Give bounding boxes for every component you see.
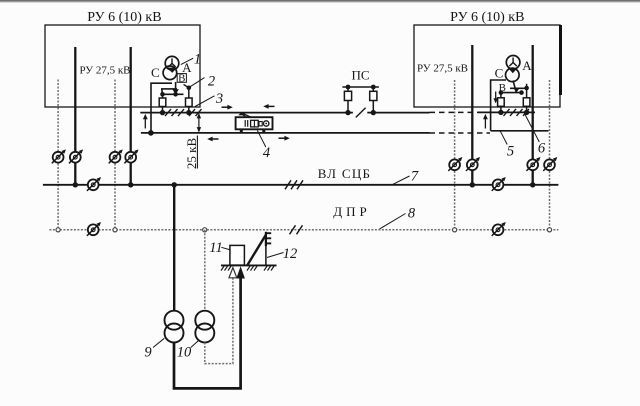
ground hatching on 25kV bus right xyxy=(504,109,530,116)
section insulator slash at PS xyxy=(356,108,366,118)
svg-text:А: А xyxy=(522,58,532,73)
svg-text:РУ 6 (10) кВ: РУ 6 (10) кВ xyxy=(450,10,524,25)
wire bar2 under T2 xyxy=(501,92,522,94)
current arrow left below rail xyxy=(207,137,218,142)
node on bar2 mid xyxy=(173,92,178,97)
transformer T10 xyxy=(195,311,214,343)
wire bar1 under T2 xyxy=(510,87,527,89)
fuse F3 right-left branch xyxy=(498,93,505,116)
pointer 8 xyxy=(380,214,406,230)
disconnector on VL SCB right xyxy=(492,177,506,191)
node bar2 right xyxy=(519,90,524,95)
svg-text:5: 5 xyxy=(507,144,514,160)
25 kV bus (contact wire) xyxy=(140,112,353,114)
svg-text:2: 2 xyxy=(208,74,215,90)
svg-text:3: 3 xyxy=(215,91,223,107)
node: left feeder 2 to VL SCB xyxy=(128,182,133,187)
DPR line xyxy=(49,229,558,231)
node top of right-right branch xyxy=(524,86,529,91)
grey return loop from T10 xyxy=(205,278,233,364)
disconnector on DPR right xyxy=(492,222,506,236)
phase label B left in box xyxy=(177,73,186,85)
pantograph of locomotive xyxy=(238,112,251,118)
svg-text:8: 8 xyxy=(408,206,416,222)
ground hatching on 25kV bus left xyxy=(165,109,202,116)
fuse F4 right-right branch xyxy=(523,84,530,115)
wire stem from T2 xyxy=(513,81,516,93)
svg-text:В: В xyxy=(178,73,185,85)
fuse F1 left branch xyxy=(159,94,166,115)
pointer 12 xyxy=(267,253,284,258)
РУ 6(10) кВ box left xyxy=(45,25,200,107)
pointer 5 xyxy=(500,131,507,144)
svg-text:10: 10 xyxy=(177,345,192,361)
svg-text:РУ 27,5 кВ: РУ 27,5 кВ xyxy=(79,65,130,77)
page top scan edge xyxy=(0,0,640,2)
down arrow in right assembly xyxy=(493,92,498,104)
pointer 2 xyxy=(190,78,205,87)
pole lower section xyxy=(265,246,267,265)
VL SCB line xyxy=(43,184,559,186)
current arrow right below rail xyxy=(279,136,290,141)
wire: T2 left terminal loop to rail-bottom xyxy=(491,80,506,131)
disconnector QS2 on left solid feeder 1 xyxy=(69,149,83,163)
feeder wire left solid 2 xyxy=(130,47,132,185)
feeder wire right solid 2 xyxy=(532,45,534,185)
node: right feeder 2 to VL SCB xyxy=(530,182,535,187)
label 25 кВ rotated xyxy=(184,138,199,170)
current arrow up at right substation xyxy=(483,114,488,129)
feeder wire right solid 1 xyxy=(471,45,473,185)
underline of 25 kV label xyxy=(196,136,198,169)
svg-text:7: 7 xyxy=(411,169,419,185)
fuse F2 right branch xyxy=(186,88,193,116)
wire bottom return right assembly xyxy=(491,130,549,132)
wire bar1 under T1 xyxy=(161,88,177,90)
svg-text:25 кВ: 25 кВ xyxy=(184,138,199,170)
node: rail start xyxy=(148,130,154,136)
pointer 7 xyxy=(393,176,410,184)
break slashes on DPR xyxy=(290,225,303,234)
rail line xyxy=(141,132,430,134)
node: right feeder 1 to VL SCB xyxy=(470,182,475,187)
hollow arrow to ground bar xyxy=(229,268,237,278)
pointer 10 xyxy=(191,340,199,347)
pointer 4 xyxy=(257,130,266,147)
wire DPR down to T10 xyxy=(204,230,206,311)
thick return loop from T9 xyxy=(174,278,241,388)
svg-text:ДПР: ДПР xyxy=(333,204,371,219)
disconnector on VL SCB left xyxy=(87,177,101,191)
feeder wire left solid 1 xyxy=(74,47,76,185)
node: left feeder 1 to VL SCB xyxy=(73,182,78,187)
wire VL SCB down to T9 xyxy=(173,185,175,311)
disconnector QS1 on left dashed feeder 1 xyxy=(52,149,66,163)
svg-text:9: 9 xyxy=(144,345,152,361)
pointer 11 xyxy=(221,247,229,249)
svg-text:РУ 6 (10) кВ: РУ 6 (10) кВ xyxy=(87,10,161,25)
node: T9 tap on VL SCB xyxy=(172,182,177,187)
disconnector QS6 on right solid feeder 1 xyxy=(466,157,480,171)
solid arrow to ground bar xyxy=(236,266,245,278)
wire right branch up-left xyxy=(184,84,189,87)
transformer T9 xyxy=(165,311,184,343)
svg-text:ВЛ СЦБ: ВЛ СЦБ xyxy=(318,166,372,181)
svg-text:11: 11 xyxy=(209,240,222,256)
locomotive 4 xyxy=(236,117,273,129)
svg-text:1: 1 xyxy=(194,52,201,68)
transformer T2 lower winding (delta) xyxy=(506,68,520,82)
wire drop bar1-bar2 xyxy=(161,89,164,94)
disconnector QS5 on right dashed feeder 1 xyxy=(448,157,462,171)
open node: T10 tap on DPR xyxy=(203,228,207,232)
svg-text:С: С xyxy=(151,65,160,80)
svg-text:12: 12 xyxy=(283,246,298,262)
wire: T1 left terminal to rail xyxy=(151,83,172,133)
pointer 9 xyxy=(153,338,164,347)
current arrow right above bus xyxy=(222,105,233,110)
strut of pole 12 xyxy=(247,235,266,266)
open node: left dashed feeder 2 on DPR xyxy=(113,228,117,232)
ground bar of 11/12 xyxy=(221,264,277,266)
svg-text:С: С xyxy=(495,66,504,81)
transformer T2 upper winding (star) xyxy=(506,56,520,70)
grounding device 11 box xyxy=(230,245,245,265)
current arrow left above bus xyxy=(263,104,274,109)
wire stem from T1 xyxy=(175,82,177,94)
disconnector QS7 on right solid feeder 2 xyxy=(526,157,540,171)
pointer 1 xyxy=(181,58,193,64)
pointer 6 xyxy=(524,112,540,143)
svg-text:ПС: ПС xyxy=(351,68,369,83)
disconnector QS4 on left solid feeder 2 xyxy=(124,149,138,163)
ground hatching under bar xyxy=(221,265,275,270)
disconnector on DPR left xyxy=(87,222,101,236)
wire bar2 under T1 xyxy=(163,93,184,95)
feeder wire right dashed 2 xyxy=(549,80,551,230)
node bar2 left xyxy=(499,90,504,95)
node top of right branch xyxy=(187,86,192,91)
open node: left dashed feeder 1 on DPR xyxy=(56,228,60,232)
current arrow up at left substation xyxy=(143,114,148,129)
svg-text:РУ 27,5 кВ: РУ 27,5 кВ xyxy=(417,63,468,75)
wheels of locomotive xyxy=(240,129,243,132)
transformer T1 upper winding (star) xyxy=(165,56,179,70)
open node: right dashed feeder 1 on DPR xyxy=(453,228,457,232)
feeder wire right dashed 1 xyxy=(454,80,456,230)
feeder wire left dashed 1 xyxy=(57,80,59,230)
feeder wire left dashed 2 xyxy=(114,80,116,230)
break slashes on VL SCB xyxy=(285,180,303,189)
pointer 3 xyxy=(195,96,215,107)
node on bar2 left xyxy=(160,92,165,97)
РУ 6(10) кВ box right xyxy=(414,25,560,107)
transformer T1 lower winding (delta) xyxy=(163,66,177,80)
pole E symbol xyxy=(266,232,271,246)
dimension arrow 25kV xyxy=(197,113,201,133)
disconnector QS3 on left dashed feeder 2 xyxy=(109,149,123,163)
svg-text:6: 6 xyxy=(538,141,546,157)
svg-text:4: 4 xyxy=(263,145,270,161)
open node: right dashed feeder 2 on DPR xyxy=(547,228,551,232)
disconnector QS8 on right dashed feeder 2 xyxy=(543,157,557,171)
